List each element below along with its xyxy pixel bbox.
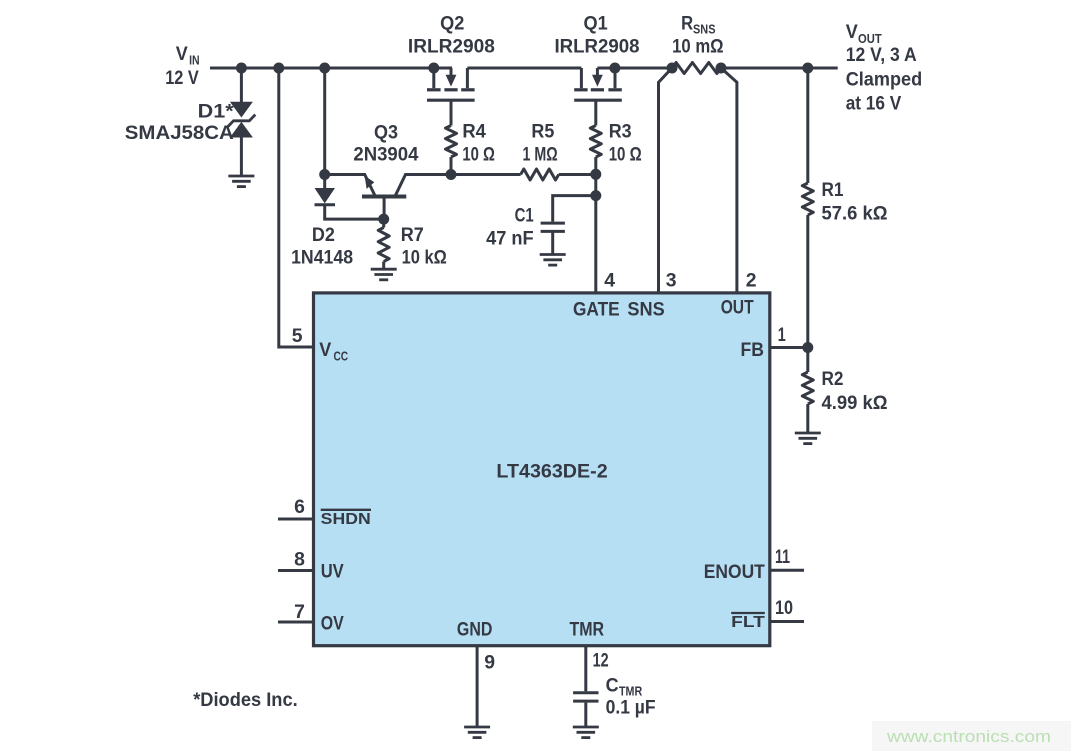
svg-text:4: 4 (604, 269, 615, 291)
svg-text:3: 3 (666, 269, 677, 291)
svg-text:10: 10 (775, 597, 793, 619)
svg-text:4.99 kΩ: 4.99 kΩ (822, 392, 888, 414)
svg-text:57.6 kΩ: 57.6 kΩ (822, 203, 888, 225)
svg-text:GATE: GATE (573, 299, 620, 321)
svg-text:6: 6 (294, 496, 305, 518)
svg-text:2N3904: 2N3904 (353, 143, 418, 165)
svg-text:10 Ω: 10 Ω (462, 144, 495, 166)
svg-text:10 kΩ: 10 kΩ (402, 247, 447, 269)
svg-text:FLT: FLT (731, 614, 765, 631)
svg-text:R3: R3 (609, 120, 632, 142)
svg-text:12: 12 (593, 649, 609, 671)
svg-text:SNS: SNS (627, 299, 664, 321)
svg-text:Q2: Q2 (440, 13, 464, 35)
svg-text:7: 7 (294, 601, 305, 623)
svg-text:47 nF: 47 nF (486, 228, 534, 250)
svg-text:OUT: OUT (721, 297, 754, 319)
svg-text:R2: R2 (822, 368, 844, 390)
svg-text:TMR: TMR (570, 619, 605, 641)
svg-text:V: V (846, 21, 858, 43)
svg-text:R7: R7 (401, 224, 424, 246)
svg-text:10 mΩ: 10 mΩ (672, 36, 724, 58)
svg-text:IRLR2908: IRLR2908 (555, 36, 640, 58)
svg-text:11: 11 (775, 546, 790, 568)
svg-text:IRLR2908: IRLR2908 (408, 36, 495, 58)
svg-text:LT4363DE-2: LT4363DE-2 (496, 461, 607, 483)
svg-text:1: 1 (778, 324, 786, 346)
svg-text:1 MΩ: 1 MΩ (523, 144, 558, 166)
svg-text:R: R (681, 13, 693, 35)
svg-text:D2: D2 (312, 224, 335, 246)
svg-text:1N4148: 1N4148 (291, 247, 353, 269)
svg-text:Clamped: Clamped (846, 69, 923, 91)
svg-text:FB: FB (741, 339, 765, 361)
svg-text:SNS: SNS (693, 22, 716, 37)
svg-text:IN: IN (189, 53, 200, 68)
svg-text:8: 8 (294, 549, 305, 571)
svg-text:ENOUT: ENOUT (704, 561, 765, 583)
svg-text:0.1 µF: 0.1 µF (606, 697, 656, 719)
svg-text:R4: R4 (462, 120, 486, 142)
svg-text:9: 9 (484, 652, 495, 674)
svg-text:Q1: Q1 (584, 13, 608, 35)
svg-text:D1*: D1* (198, 101, 234, 123)
svg-text:V: V (176, 43, 188, 65)
svg-text:C1: C1 (515, 204, 534, 226)
svg-text:CC: CC (334, 349, 349, 364)
svg-text:GND: GND (457, 619, 493, 641)
svg-text:*Diodes Inc.: *Diodes Inc. (193, 689, 298, 711)
svg-text:OV: OV (321, 613, 344, 635)
svg-text:SHDN: SHDN (321, 511, 371, 528)
svg-text:at 16 V: at 16 V (846, 92, 902, 114)
svg-text:Q3: Q3 (374, 122, 398, 144)
svg-text:10 Ω: 10 Ω (609, 144, 642, 166)
svg-text:2: 2 (746, 269, 757, 291)
svg-text:C: C (606, 675, 619, 697)
svg-text:www.cntronics.com: www.cntronics.com (886, 728, 1051, 746)
svg-text:5: 5 (292, 325, 303, 347)
svg-text:R5: R5 (531, 120, 554, 142)
svg-text:SMAJ58CA: SMAJ58CA (125, 122, 234, 144)
svg-text:12 V, 3 A: 12 V, 3 A (846, 44, 917, 66)
svg-text:UV: UV (321, 560, 344, 582)
svg-text:12 V: 12 V (165, 67, 199, 89)
svg-text:V: V (319, 339, 331, 361)
svg-text:R1: R1 (822, 179, 844, 201)
